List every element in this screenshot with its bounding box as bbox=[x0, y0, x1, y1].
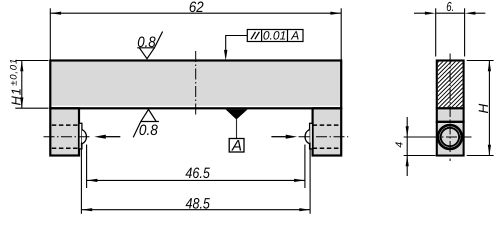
side inner circle bbox=[441, 128, 459, 146]
dim H1 text bbox=[9, 58, 24, 105]
svg-text:4: 4 bbox=[395, 142, 406, 148]
right plunger axis centerline bbox=[299, 136, 349, 138]
bar body fill bbox=[51, 62, 340, 106]
dim 62 extension lines bbox=[50, 8, 341, 59]
main vertical centerline bbox=[195, 51, 197, 116]
dim 62 text bbox=[189, 0, 204, 16]
svg-text:46.5: 46.5 bbox=[185, 165, 210, 182]
roughness symbol bottom bbox=[133, 109, 159, 139]
dim 62 line bbox=[50, 12, 341, 15]
roughness symbol top bbox=[137, 32, 162, 59]
svg-text:0.8: 0.8 bbox=[139, 122, 158, 139]
right plunger ball bbox=[305, 130, 310, 144]
side hatch bottom line bbox=[436, 107, 465, 109]
side vertical centerline bbox=[449, 54, 451, 162]
side body outline bbox=[437, 61, 464, 156]
dim 46.5 extension lines bbox=[87, 145, 305, 189]
svg-text:62: 62 bbox=[189, 0, 204, 16]
right thread hidden lines bbox=[313, 125, 340, 148]
side band bbox=[436, 110, 465, 122]
left ball arrow bbox=[94, 135, 120, 139]
left plunger axis centerline bbox=[44, 136, 92, 138]
dim 4 line bbox=[406, 117, 409, 176]
bar body outline bbox=[50, 61, 341, 109]
dim H1 extension lines bbox=[15, 61, 48, 109]
dim 6 line bbox=[414, 12, 485, 15]
right ball arrow bbox=[271, 135, 297, 139]
side hatch bbox=[376, 58, 500, 120]
left plunger ball bbox=[82, 130, 87, 144]
datum A triangle bbox=[226, 109, 248, 138]
left plunger housing bbox=[79, 123, 82, 149]
dim 6 text bbox=[446, 0, 454, 14]
svg-text:0.8: 0.8 bbox=[137, 34, 156, 51]
dim 48.5 extension lines bbox=[81, 143, 310, 214]
dim 4 text bbox=[395, 142, 406, 148]
parallelism frame bbox=[247, 29, 303, 43]
svg-text:6.: 6. bbox=[446, 0, 454, 14]
parallelism frame leader bbox=[224, 36, 247, 61]
dim H1 line bbox=[20, 61, 23, 109]
dim 4 extension lines bbox=[404, 137, 436, 156]
datum A box bbox=[229, 138, 244, 155]
dim H text bbox=[476, 104, 491, 114]
dim H line bbox=[488, 61, 491, 156]
left thread hidden lines bbox=[52, 125, 79, 148]
side outer circle bbox=[438, 125, 462, 149]
svg-text:48.5: 48.5 bbox=[186, 196, 211, 213]
svg-text:A: A bbox=[231, 138, 242, 155]
svg-text:0.01: 0.01 bbox=[263, 29, 286, 43]
dim 6 extension lines bbox=[436, 8, 465, 56]
right plunger housing bbox=[310, 123, 313, 149]
dim 48.5 line bbox=[81, 208, 310, 211]
svg-text:H: H bbox=[476, 104, 491, 114]
side lower block fill bbox=[438, 123, 462, 154]
left leg bbox=[50, 108, 79, 155]
dim 46.5 line bbox=[87, 179, 305, 182]
side horizontal centerline bbox=[429, 136, 472, 138]
dim H extension lines bbox=[467, 61, 494, 156]
dim 46.5 text bbox=[185, 165, 210, 182]
right leg bbox=[313, 108, 342, 155]
svg-text:A: A bbox=[290, 29, 299, 43]
dim 48.5 text bbox=[186, 196, 211, 213]
